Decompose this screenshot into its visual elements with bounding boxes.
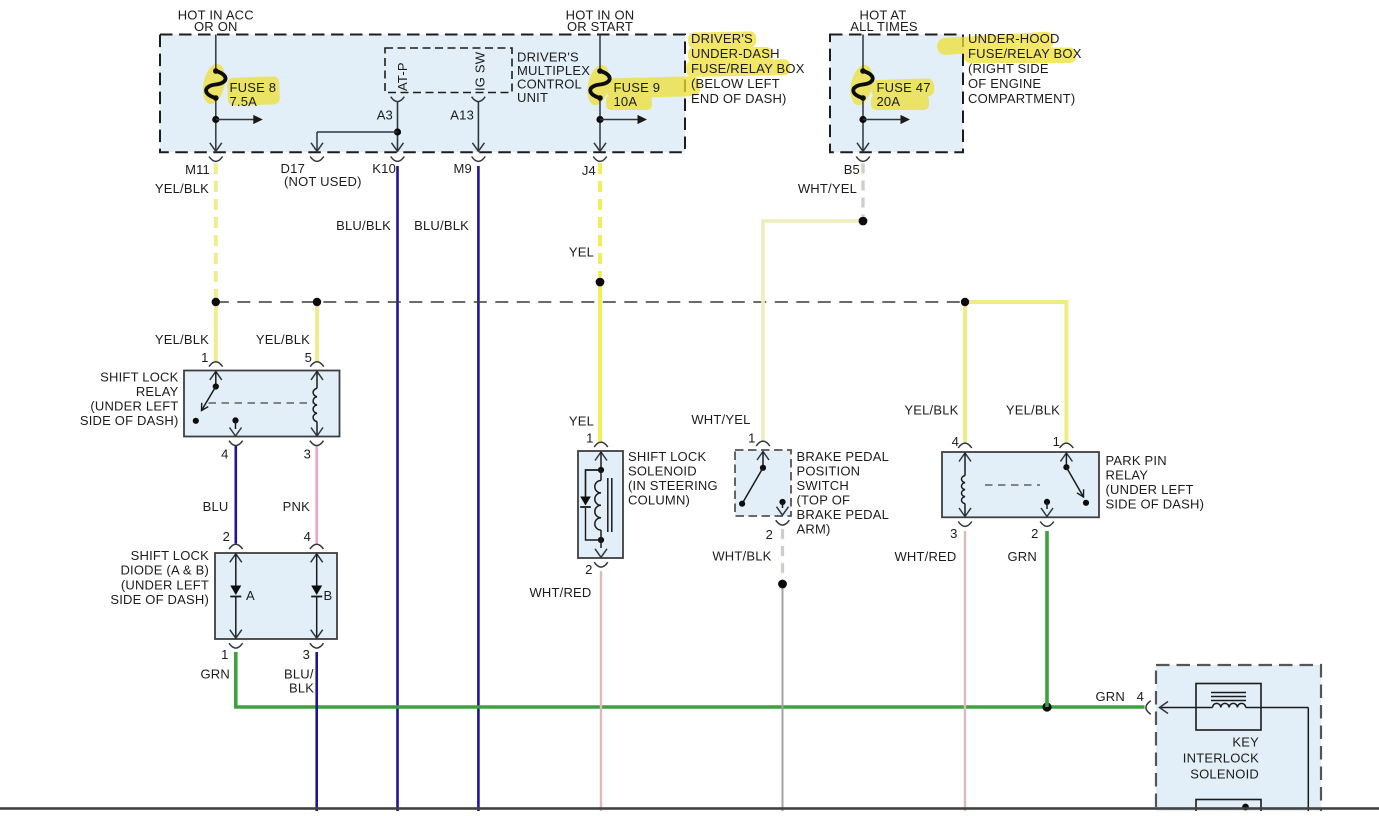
svg-text:SOLENOID: SOLENOID [1190,767,1259,782]
svg-text:1: 1 [586,431,593,446]
svg-text:KEY: KEY [1232,735,1259,750]
svg-text:COLUMN): COLUMN) [628,493,690,508]
svg-text:B: B [324,588,333,603]
svg-text:SIDE OF DASH): SIDE OF DASH) [110,592,209,607]
svg-text:M11: M11 [185,162,210,177]
svg-text:20A: 20A [877,94,901,109]
svg-text:GRN: GRN [201,667,231,682]
svg-text:DRIVER'S: DRIVER'S [691,31,753,46]
svg-text:YEL/BLK: YEL/BLK [155,181,209,196]
svg-text:2: 2 [585,562,592,577]
svg-text:B5: B5 [844,162,860,177]
svg-text:DIODE (A & B): DIODE (A & B) [120,563,209,578]
svg-text:UNIT: UNIT [517,90,548,105]
svg-text:A3: A3 [377,108,393,123]
svg-text:END OF DASH): END OF DASH) [691,91,787,106]
svg-text:OR ON: OR ON [194,19,238,34]
svg-text:3: 3 [304,447,311,462]
svg-text:BLU/: BLU/ [284,667,314,682]
svg-text:K10: K10 [372,161,396,176]
svg-text:COMPARTMENT): COMPARTMENT) [968,91,1075,106]
svg-text:YEL: YEL [569,245,594,260]
svg-text:RELAY: RELAY [1106,468,1149,483]
svg-text:(UNDER LEFT: (UNDER LEFT [1106,482,1194,497]
svg-text:YEL/BLK: YEL/BLK [155,332,209,347]
svg-text:(TOP OF: (TOP OF [797,493,851,508]
svg-text:M9: M9 [454,161,472,176]
svg-text:AT-P: AT-P [395,62,410,91]
svg-text:A: A [246,588,255,603]
svg-text:WHT/YEL: WHT/YEL [798,181,857,196]
svg-text:1: 1 [748,431,755,446]
svg-text:BLU: BLU [203,499,229,514]
svg-text:2: 2 [766,527,773,542]
svg-text:(BELOW LEFT: (BELOW LEFT [691,76,780,91]
svg-text:WHT/BLK: WHT/BLK [712,549,771,564]
svg-text:2: 2 [1031,526,1038,541]
svg-text:(NOT USED): (NOT USED) [284,174,362,189]
svg-text:1: 1 [201,350,208,365]
svg-text:WHT/RED: WHT/RED [529,585,591,600]
svg-text:A13: A13 [450,108,474,123]
svg-text:SIDE OF DASH): SIDE OF DASH) [1106,497,1205,512]
svg-text:YEL/BLK: YEL/BLK [904,403,958,418]
svg-text:(IN STEERING: (IN STEERING [628,478,718,493]
svg-text:SHIFT LOCK: SHIFT LOCK [100,370,178,385]
svg-text:WHT/RED: WHT/RED [894,549,956,564]
svg-text:BRAKE PEDAL: BRAKE PEDAL [797,449,890,464]
svg-text:BLU/BLK: BLU/BLK [414,218,469,233]
svg-text:SHIFT LOCK: SHIFT LOCK [628,449,706,464]
svg-text:INTERLOCK: INTERLOCK [1183,751,1259,766]
svg-text:UNDER-HOOD: UNDER-HOOD [968,31,1060,46]
svg-text:UNDER-DASH: UNDER-DASH [691,46,780,61]
svg-text:FUSE 8: FUSE 8 [230,80,277,95]
svg-text:(UNDER LEFT: (UNDER LEFT [121,578,209,593]
svg-text:YEL/BLK: YEL/BLK [1006,403,1060,418]
svg-text:PNK: PNK [283,499,310,514]
svg-text:10A: 10A [614,94,638,109]
svg-text:(RIGHT SIDE: (RIGHT SIDE [968,61,1049,76]
svg-text:4: 4 [1137,689,1144,704]
svg-text:ALL TIMES: ALL TIMES [850,19,918,34]
svg-text:BLK: BLK [289,681,314,696]
svg-text:GRN: GRN [1096,689,1126,704]
svg-text:WHT/YEL: WHT/YEL [691,412,750,427]
svg-text:5: 5 [305,350,312,365]
svg-text:YEL: YEL [569,414,594,429]
svg-text:1: 1 [1053,434,1060,449]
svg-text:J4: J4 [582,163,596,178]
svg-text:FUSE/RELAY BOX: FUSE/RELAY BOX [968,46,1082,61]
svg-text:RELAY: RELAY [136,384,179,399]
svg-text:POSITION: POSITION [797,464,861,479]
svg-text:3: 3 [303,647,310,662]
svg-text:4: 4 [221,447,228,462]
svg-text:PARK PIN: PARK PIN [1106,453,1167,468]
svg-text:3: 3 [950,526,957,541]
svg-text:FUSE/RELAY BOX: FUSE/RELAY BOX [691,61,805,76]
svg-text:FUSE 9: FUSE 9 [614,80,661,95]
svg-text:OR START: OR START [567,19,633,34]
svg-text:FUSE 47: FUSE 47 [877,80,931,95]
svg-text:SWITCH: SWITCH [797,478,849,493]
svg-text:BRAKE PEDAL: BRAKE PEDAL [797,507,890,522]
svg-text:BLU/BLK: BLU/BLK [336,218,391,233]
svg-text:SIDE OF DASH): SIDE OF DASH) [80,413,179,428]
svg-text:OF ENGINE: OF ENGINE [968,76,1041,91]
svg-text:YEL/BLK: YEL/BLK [256,332,310,347]
svg-text:SOLENOID: SOLENOID [628,464,697,479]
svg-text:7.5A: 7.5A [230,94,258,109]
svg-text:IG SW: IG SW [473,51,488,91]
svg-text:GRN: GRN [1008,549,1038,564]
svg-text:2: 2 [223,529,230,544]
svg-text:SHIFT LOCK: SHIFT LOCK [131,548,209,563]
svg-text:4: 4 [304,529,311,544]
svg-text:(UNDER LEFT: (UNDER LEFT [90,399,178,414]
svg-text:1: 1 [221,647,228,662]
svg-text:ARM): ARM) [797,522,831,537]
svg-text:4: 4 [952,434,959,449]
